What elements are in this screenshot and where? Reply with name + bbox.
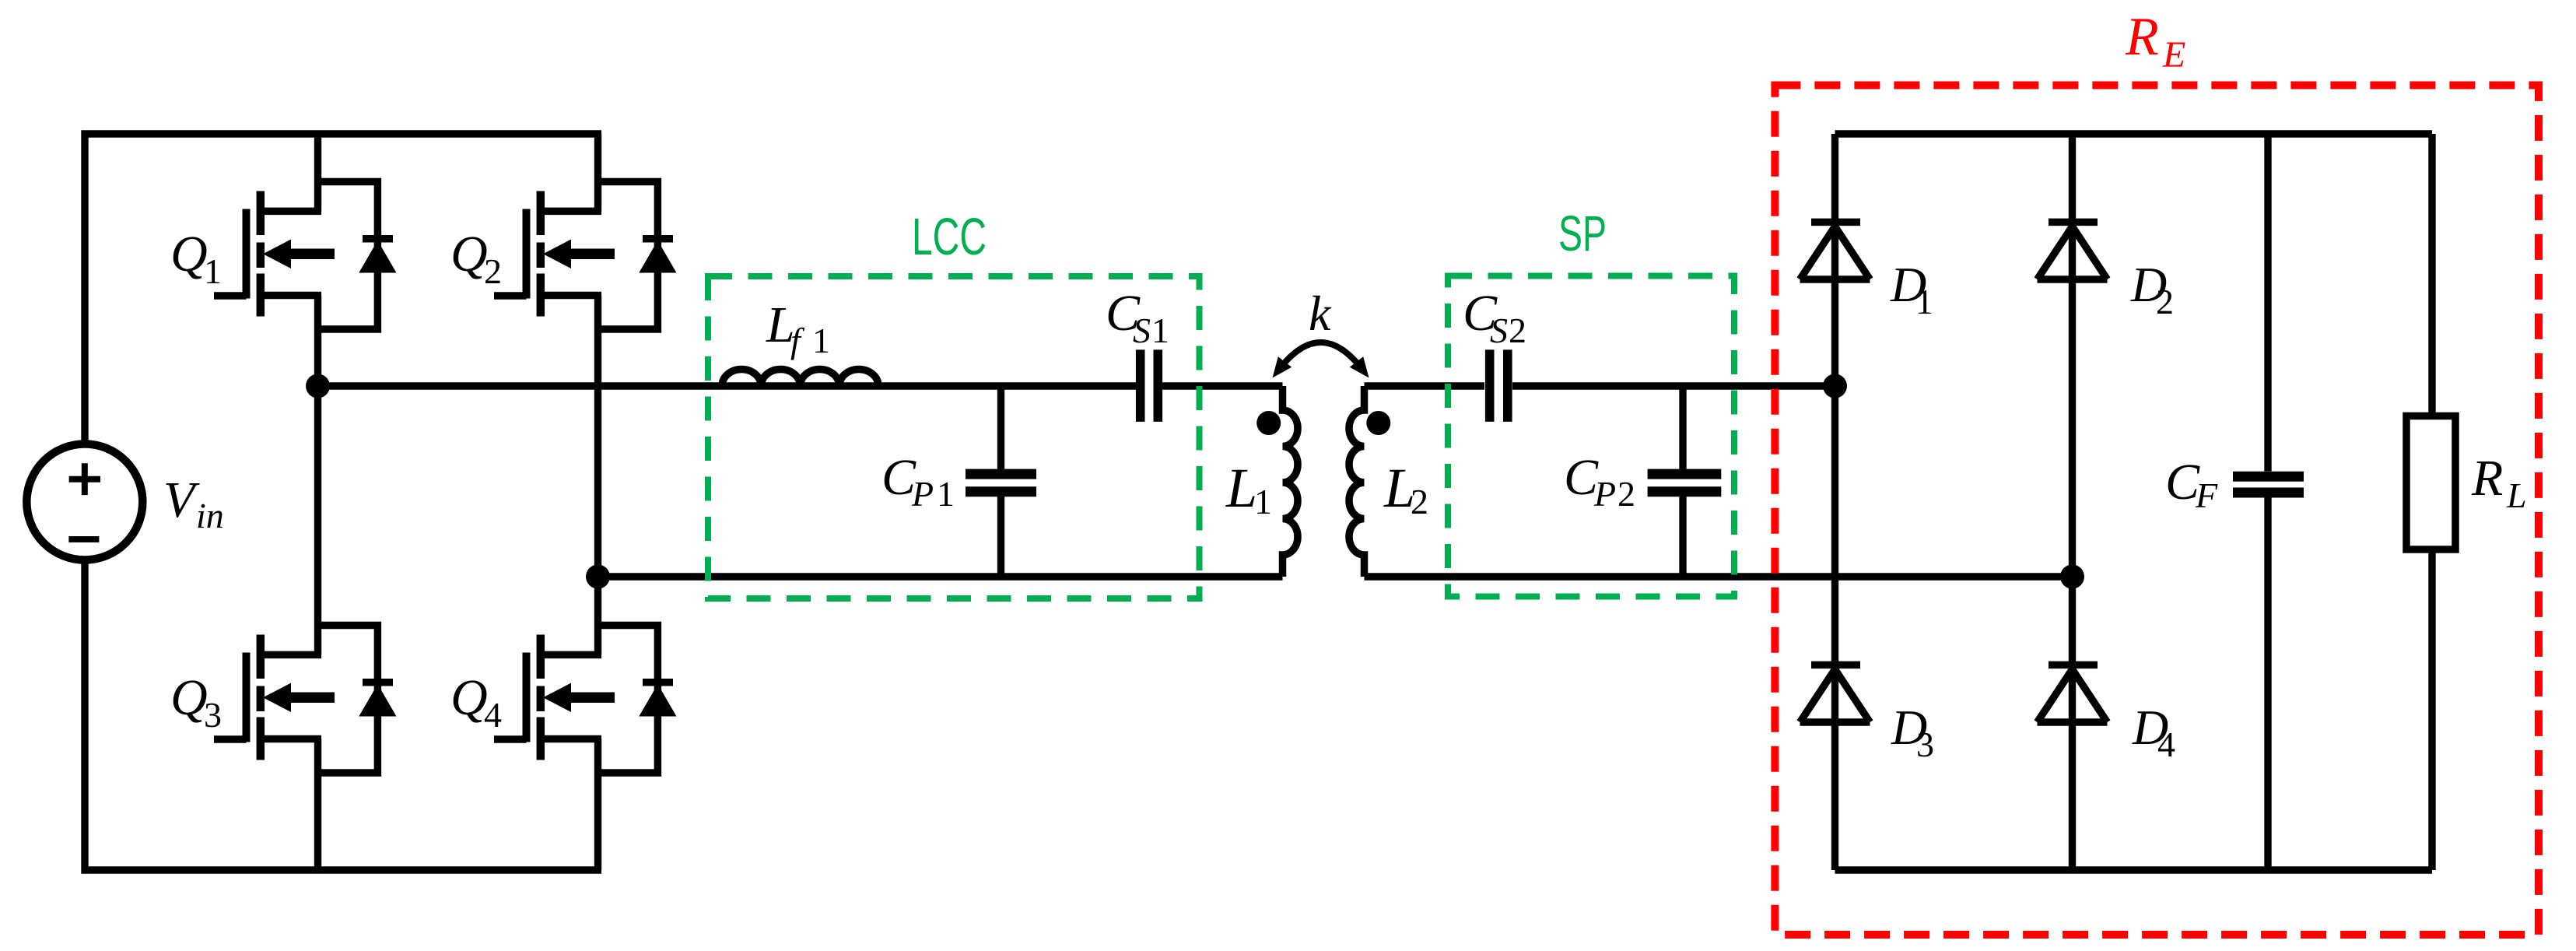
coupling arc k — [1273, 342, 1369, 378]
wire L2 bottom to rectifier node — [1365, 573, 2073, 580]
svg-text:1: 1 — [1915, 282, 1933, 321]
wire CS2 to rectifier node — [1512, 382, 1835, 389]
wire Q4 drain vertical — [594, 577, 601, 654]
wire L2 top to CS2 — [1365, 382, 1485, 389]
voltage source Vin — [26, 444, 142, 560]
label D2 — [2130, 257, 2174, 321]
svg-text:3: 3 — [1916, 725, 1934, 764]
wire Q1 source vertical — [314, 296, 321, 387]
label CF — [2165, 454, 2218, 515]
inductor Lf1 — [722, 369, 878, 386]
rectifier bottom rail — [1835, 866, 2433, 873]
wire CS1 to transformer L1 — [1162, 382, 1283, 389]
label CP2 — [1564, 449, 1635, 514]
transistor Q3 — [214, 626, 397, 774]
svg-text:V: V — [163, 472, 200, 528]
svg-text:k: k — [1309, 286, 1332, 341]
svg-text:P: P — [1593, 474, 1616, 514]
svg-text:Q: Q — [450, 669, 488, 726]
svg-text:F: F — [2195, 475, 2218, 515]
svg-text:R: R — [2125, 7, 2159, 67]
capacitor CF — [2233, 134, 2304, 870]
svg-text:4: 4 — [484, 695, 502, 735]
node B junction dot — [586, 565, 610, 589]
transistor Q2 — [494, 182, 677, 330]
label D4 — [2132, 700, 2175, 764]
wire Q2 drain vertical — [594, 134, 601, 211]
wire Q2 source vertical — [594, 296, 601, 577]
capacitor CS1 — [1141, 349, 1158, 422]
wire left rail bottom + bottom rail — [85, 560, 601, 870]
svg-text:2: 2 — [1509, 311, 1526, 350]
label RL — [2471, 450, 2527, 515]
svg-text:1: 1 — [812, 321, 830, 360]
diode D2 — [2038, 222, 2108, 279]
rectifier top rail — [1835, 130, 2433, 137]
label Vin — [163, 472, 224, 535]
wire node B to L1 bottom — [598, 573, 1283, 580]
svg-text:R: R — [2471, 450, 2503, 507]
svg-text:LCC: LCC — [912, 208, 987, 266]
svg-text:4: 4 — [2157, 725, 2175, 764]
equivalent resistance RE dashed box — [1775, 86, 2539, 935]
inductor L2 secondary coil — [1349, 386, 1364, 577]
svg-text:f: f — [790, 321, 805, 360]
diode D4 — [2038, 665, 2108, 722]
inductor L1 primary coil — [1283, 386, 1299, 577]
svg-text:Q: Q — [170, 226, 208, 282]
label Q1 — [170, 226, 222, 291]
svg-text:2: 2 — [1411, 482, 1428, 521]
svg-text:L: L — [1225, 457, 1257, 519]
resistor RL — [2406, 134, 2455, 870]
svg-text:1: 1 — [204, 251, 222, 291]
svg-text:1: 1 — [1151, 311, 1169, 350]
label D3 — [1891, 700, 1934, 764]
rectifier node dot bottom — [2060, 565, 2084, 589]
node A junction dot — [306, 374, 330, 398]
svg-text:Q: Q — [450, 226, 488, 282]
wire left rail top + top rail — [85, 134, 601, 444]
label CP1 — [881, 449, 955, 514]
label L2 — [1383, 457, 1428, 521]
L1 polarity dot — [1256, 411, 1281, 435]
svg-text:3: 3 — [204, 695, 222, 735]
diode D1 — [1800, 222, 1870, 279]
label CS1 — [1106, 285, 1169, 350]
svg-text:2: 2 — [1617, 474, 1635, 514]
wire node A to CS1 — [318, 382, 1137, 389]
svg-text:1: 1 — [1254, 482, 1272, 521]
svg-text:L: L — [2506, 475, 2527, 515]
wire Q4 source vertical — [594, 739, 601, 871]
transistor Q1 — [214, 182, 397, 330]
wire Q3 source vertical — [314, 739, 321, 871]
svg-text:2: 2 — [2156, 282, 2174, 321]
LCC compensation dashed box — [708, 276, 1200, 598]
label CS2 — [1463, 285, 1526, 350]
label D1 — [1890, 257, 1933, 321]
SP compensation dashed box — [1448, 276, 1734, 597]
wire Q1 drain vertical — [314, 134, 321, 211]
capacitor CS2 — [1490, 349, 1508, 422]
label L1 — [1225, 457, 1272, 521]
label Q4 — [450, 669, 502, 735]
transistor Q4 — [494, 626, 677, 774]
diode D3 — [1800, 665, 1870, 722]
capacitor CP2 — [1648, 386, 1722, 577]
svg-text:in: in — [196, 496, 224, 535]
svg-text:SP: SP — [1558, 205, 1607, 261]
label Lf1 — [766, 297, 830, 360]
capacitor CP1 — [966, 386, 1036, 577]
rectifier node dot top — [1823, 374, 1847, 398]
svg-text:S: S — [1490, 311, 1508, 350]
svg-text:P: P — [911, 474, 934, 514]
L2 polarity dot — [1366, 411, 1390, 435]
svg-text:2: 2 — [484, 251, 502, 291]
rectifier right leg wire — [2069, 134, 2076, 870]
label Q2 — [450, 226, 502, 291]
wire Q3 drain vertical — [314, 386, 321, 654]
svg-text:1: 1 — [937, 474, 955, 514]
svg-text:E: E — [2162, 34, 2185, 75]
svg-text:S: S — [1133, 311, 1151, 350]
label Q3 — [170, 669, 222, 735]
label RE — [2125, 7, 2185, 75]
svg-text:Q: Q — [170, 669, 208, 726]
rectifier left leg wire — [1831, 134, 1838, 870]
